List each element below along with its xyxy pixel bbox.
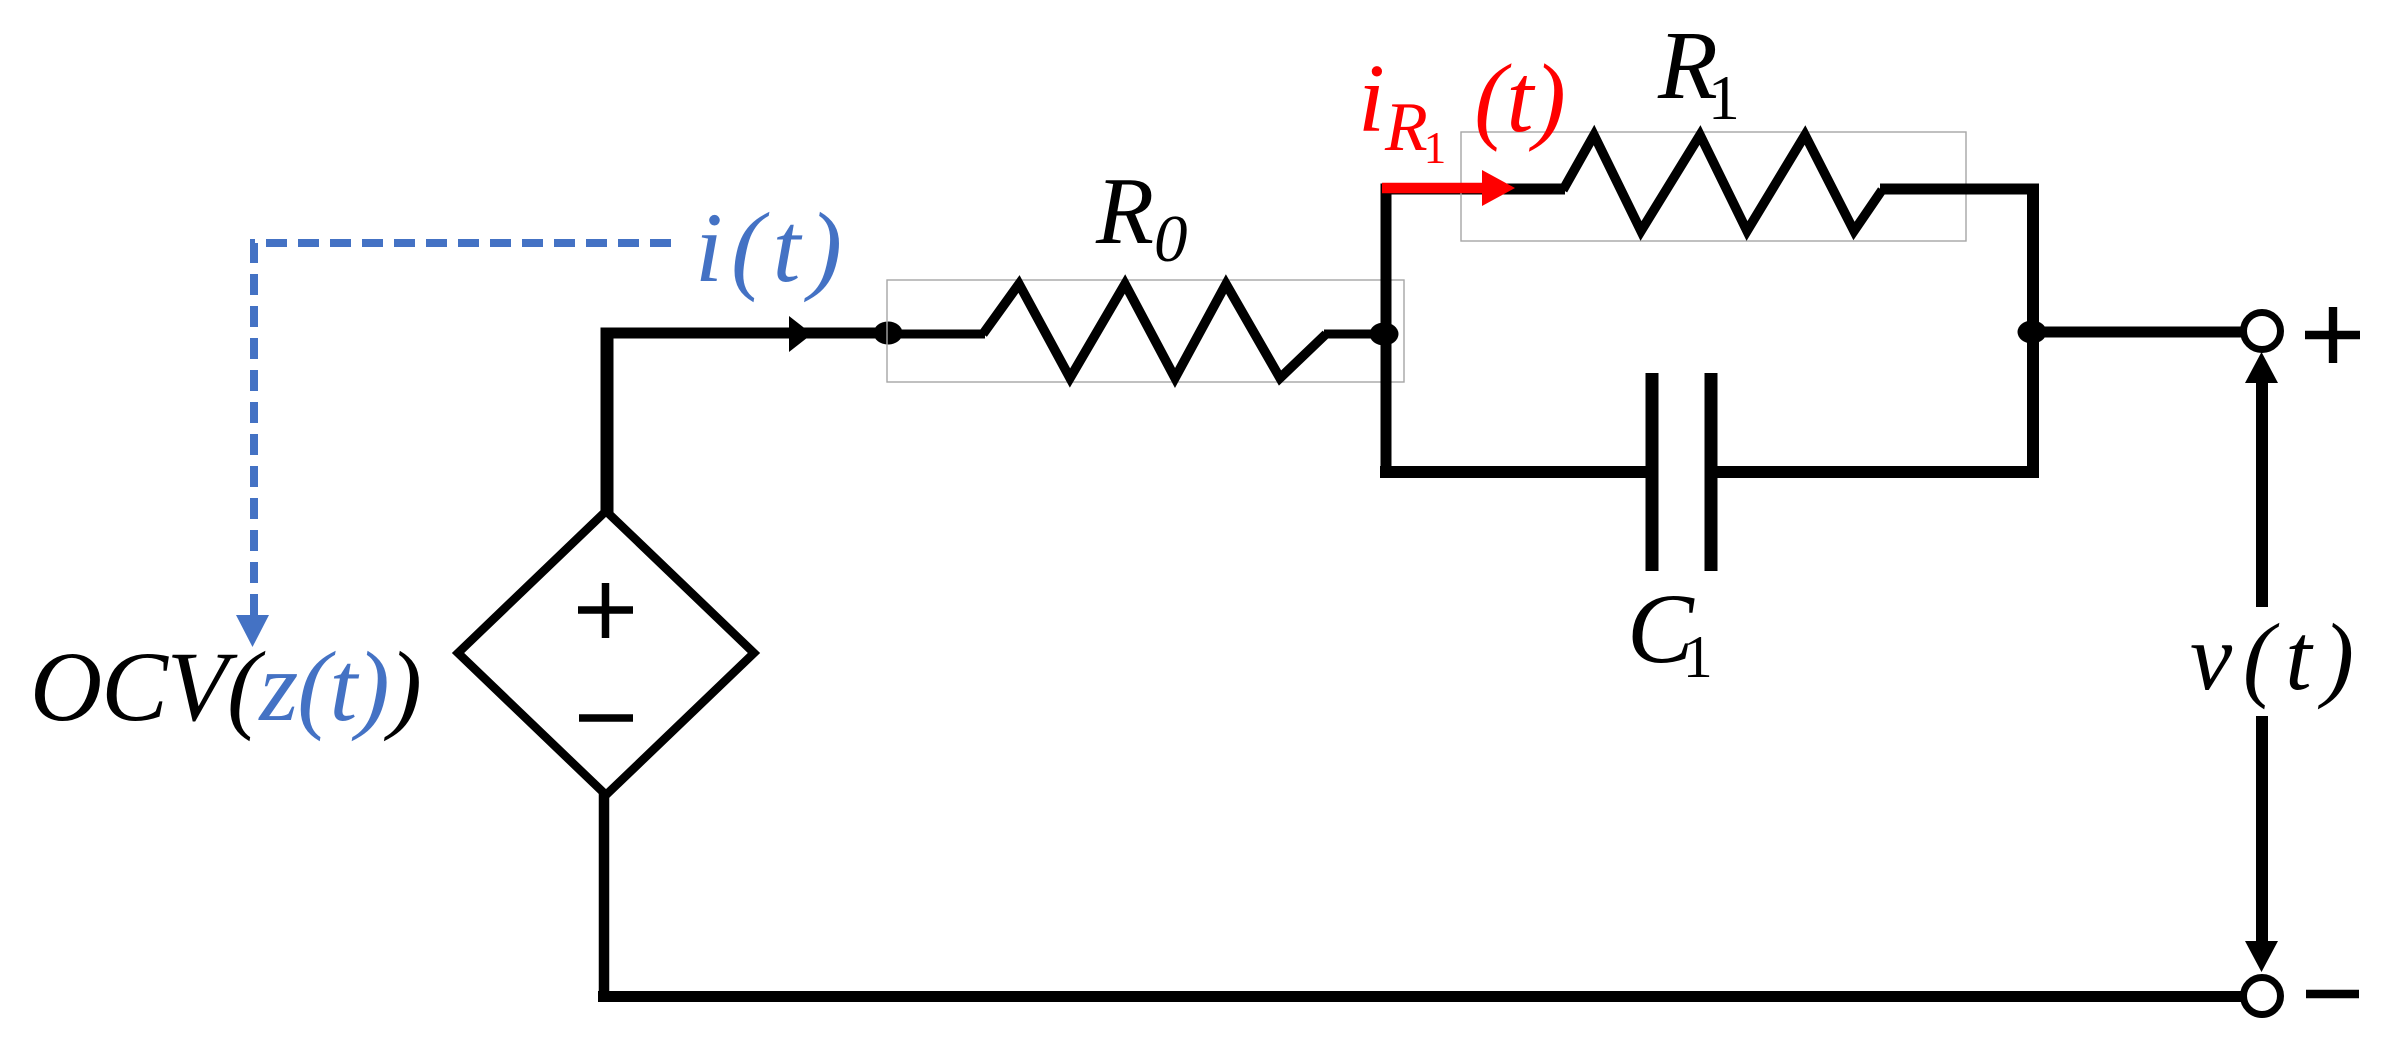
resistor R0 bounding box (light frame) [887,280,1404,382]
node A junction dot [874,322,903,345]
wire top rail to node A [601,328,888,339]
wire right vertical of RC parallel pair [2027,184,2039,478]
voltage source U1 diamond (OCV dependent source) [458,511,754,795]
wire bottom branch left lead to capacitor [1380,466,1647,478]
node C junction dot [2018,321,2047,344]
resistor R1 zigzag [1563,135,1882,231]
resistor R0 right lead [1324,330,1386,339]
wire bottom branch right lead from capacitor [1717,466,2039,478]
wire from source bottom to bottom rail [599,792,610,1002]
resistor R0 zigzag [983,284,1326,378]
node arrowhead of dashed i(t) line [236,615,269,647]
current arrow iR1 (red) [1382,183,1484,194]
wire bottom rail [598,991,2243,1002]
negative terminal circle [2244,978,2281,1015]
capacitor C1 right plate [1705,373,1718,571]
minus sign inside source [579,714,633,722]
wire output to positive terminal [2033,327,2243,338]
wire dashed blue current-sense line i(t) [254,243,671,615]
minus sign at terminal [2306,990,2359,998]
v(t) upper arrow (pointing up to + terminal) [2256,380,2268,607]
resistor R1 right lead [1880,184,2038,195]
resistor R0 left lead [888,330,985,339]
plus sign at terminal [2305,307,2360,363]
wire left vertical of RC parallel pair [1381,184,1392,478]
wire top branch left lead (under red arrow) [1381,184,1565,195]
capacitor C1 left plate [1646,373,1659,571]
resistor R1 bounding box (light frame) [1461,132,1966,241]
plus sign inside source [578,583,633,638]
positive terminal circle [2244,313,2281,350]
v(t) lower arrow (pointing down to - terminal) [2256,716,2268,944]
svg-text:OCV(z(t)): OCV(z(t)) [30,631,421,742]
wire from source top to top rail [601,328,614,515]
current direction arrowhead on top rail [789,316,812,352]
node B junction dot [1370,323,1399,346]
svg-text:v(t): v(t) [2190,604,2354,710]
